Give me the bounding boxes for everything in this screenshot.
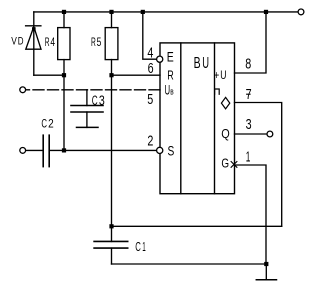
svg-text:1: 1 [246, 150, 251, 166]
svg-text:C: C [135, 240, 141, 254]
wire R4 bottom column [63, 60, 65, 151]
IC U1 body outline [160, 43, 235, 194]
junction dot C2 R4 column [62, 148, 66, 152]
diamond symbol in IC [221, 97, 229, 109]
svg-text:R: R [167, 69, 174, 83]
resistor R5 body [105, 28, 118, 60]
svg-text:R: R [91, 35, 96, 49]
diode VD triangle [26, 27, 41, 50]
wire pin 3 output [235, 133, 267, 135]
svg-text:3: 3 [99, 93, 105, 109]
svg-text:V: V [11, 35, 17, 47]
svg-text:7: 7 [246, 87, 252, 103]
capacitor C3 top plate [71, 105, 103, 107]
wire pin 1 to ground [235, 165, 267, 264]
svg-text:B: B [194, 55, 201, 72]
ground bar [256, 279, 276, 281]
svg-text:E: E [167, 49, 174, 65]
junction dot ground [264, 262, 268, 266]
svg-text:Q: Q [221, 126, 230, 141]
capacitor C1 top plate [94, 240, 128, 242]
wire pin 4 from top rail [143, 12, 157, 59]
junction dot top rail R4 [62, 10, 66, 14]
wire pin 7 output column [235, 103, 282, 227]
terminal pin 3 output [267, 131, 273, 137]
svg-text:G: G [221, 156, 229, 171]
capacitor C3 bottom plate [71, 111, 103, 113]
svg-text:1: 1 [142, 240, 146, 254]
capacitor C1 bottom lead [111, 248, 113, 264]
svg-text:8: 8 [245, 57, 251, 73]
diode VD cathode bar [26, 25, 41, 27]
junction dot diode apex [32, 27, 36, 31]
svg-text:6: 6 [148, 61, 154, 77]
IC U1 inner divider right [214, 43, 216, 194]
crossbar of digit 7 [246, 93, 251, 95]
IC U1 inner divider left [180, 43, 182, 194]
svg-text:C: C [92, 93, 98, 109]
svg-text:S: S [168, 144, 175, 159]
svg-text:в: в [170, 87, 174, 97]
svg-text:2: 2 [48, 116, 54, 130]
svg-text:4: 4 [50, 35, 55, 49]
wire top supply rail [34, 11, 298, 13]
svg-text:C: C [41, 116, 47, 130]
wire pin 5 dashed control line [26, 89, 160, 91]
svg-text:5: 5 [147, 92, 153, 108]
junction dot top rail pin8 [264, 10, 268, 14]
svg-text:U: U [202, 55, 209, 72]
capacitor C2 left plate [42, 135, 44, 166]
junction dot R4 bottom [62, 73, 66, 77]
resistor R4 top stub [63, 12, 65, 28]
resistor R4 body [58, 28, 70, 60]
ground stub [265, 264, 267, 280]
wire input terminal 2 to C2 [26, 149, 44, 151]
capacitor C2 right plate [48, 135, 50, 166]
capacitor C3 bottom lead [86, 112, 88, 127]
svg-text:+: + [214, 70, 220, 82]
wire diode column [33, 12, 35, 75]
junction dot top rail R5 [109, 10, 113, 14]
wire R5 bottom column [111, 60, 113, 242]
junction dot C1 top [109, 224, 113, 228]
inversion bubble pin S [157, 147, 163, 153]
wire pin 8 to top rail [235, 12, 267, 73]
junction dot R5 bottom [109, 73, 113, 77]
svg-text:3: 3 [246, 117, 252, 133]
wire bottom ground rail [112, 263, 267, 265]
capacitor C3 top lead [86, 90, 88, 106]
resistor R5 top stub [111, 12, 113, 28]
wire C2 to pin S [49, 149, 156, 151]
capacitor C1 bottom plate [94, 247, 128, 249]
wire diode anode to R4 bottom [34, 74, 64, 76]
inversion bubble pin E [157, 56, 163, 62]
pulse symbol in IC [215, 89, 220, 94]
svg-text:4: 4 [147, 46, 153, 62]
svg-text:5: 5 [97, 35, 102, 49]
terminal input 2 [20, 148, 26, 154]
ground bar below C3 [77, 126, 99, 128]
junction dot top rail pin4 [141, 10, 145, 14]
terminal input 1 [20, 87, 26, 93]
svg-text:U: U [220, 70, 226, 82]
svg-text:D: D [18, 35, 24, 47]
wire pin 6 from R5 bottom [112, 74, 161, 76]
wire bottom middle C1 net [112, 225, 282, 227]
svg-text:2: 2 [147, 134, 153, 150]
cross mark pin G [231, 162, 237, 168]
svg-text:R: R [45, 35, 50, 49]
terminal top right [298, 9, 304, 15]
